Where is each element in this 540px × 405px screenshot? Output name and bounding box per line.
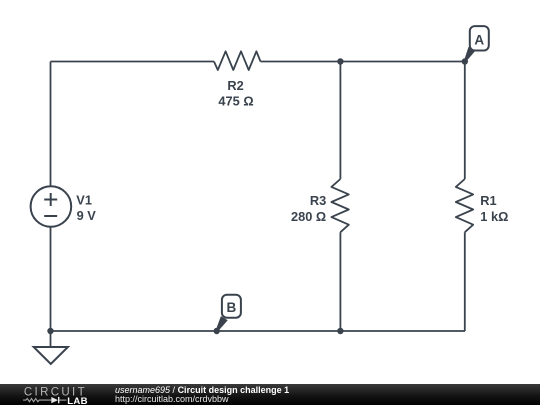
CircuitLab logo <box>0 384 110 405</box>
wire right upper vertical <box>464 62 466 180</box>
resistor R1 <box>456 179 473 232</box>
junction dot node B <box>214 328 220 334</box>
voltage source V1 <box>31 186 72 227</box>
wire left upper vertical <box>50 62 52 187</box>
junction dot top middle <box>337 58 343 64</box>
footer line 2 <box>115 394 229 404</box>
footer bar <box>0 384 540 405</box>
junction dot bottom left <box>47 328 53 334</box>
svg-text:R3: R3 <box>310 193 326 208</box>
node B flag <box>216 295 241 332</box>
footer line 1 <box>115 385 289 395</box>
svg-text:LAB: LAB <box>67 396 88 405</box>
wire top-left horizontal <box>51 61 215 63</box>
resistor R2 <box>214 51 261 70</box>
wire bottom horizontal <box>51 330 466 332</box>
ground <box>34 331 68 364</box>
svg-text:1 kΩ: 1 kΩ <box>480 209 508 224</box>
svg-text:475 Ω: 475 Ω <box>218 94 253 109</box>
svg-text:280 Ω: 280 Ω <box>291 209 326 224</box>
wire left lower vertical <box>50 227 52 331</box>
wire middle lower vertical <box>339 232 341 331</box>
svg-text:R1: R1 <box>480 193 496 208</box>
resistor R3 <box>331 179 348 232</box>
wire middle upper vertical <box>339 62 341 180</box>
node A flag <box>464 26 489 62</box>
svg-text:R2: R2 <box>227 78 243 93</box>
wire right lower vertical <box>464 232 466 331</box>
svg-text:A: A <box>474 32 484 47</box>
junction dot bottom middle <box>337 328 343 334</box>
wire top-right horizontal <box>261 61 466 63</box>
svg-text:9 V: 9 V <box>77 208 97 223</box>
svg-text:V1: V1 <box>76 193 92 208</box>
svg-text:B: B <box>227 300 237 315</box>
junction dot node A <box>462 58 468 64</box>
